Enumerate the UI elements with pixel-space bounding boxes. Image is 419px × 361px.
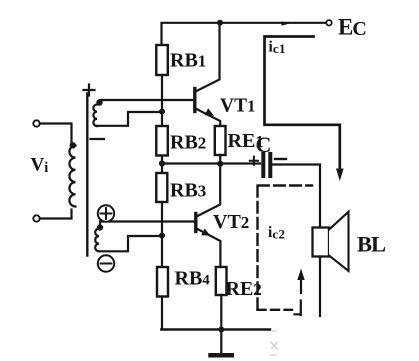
arrowhead VT2 emitter <box>201 228 210 235</box>
resistor RE2 <box>216 267 227 295</box>
speaker BL cone <box>329 212 349 271</box>
input terminal top <box>33 120 39 126</box>
svg-text:RB3: RB3 <box>170 180 206 202</box>
wire RE2 bottom to ground rail <box>220 295 222 330</box>
node junction mid rail left <box>159 160 165 166</box>
node junction ground rail <box>218 327 224 333</box>
polarity + upper winding <box>84 85 95 96</box>
transistor VT2 emitter <box>197 229 221 268</box>
svg-text:C: C <box>256 132 272 157</box>
wire top rail EC <box>162 23 327 45</box>
current loop ic2 dashed corner bottom right <box>295 301 301 316</box>
input terminal bottom <box>33 215 39 221</box>
node junction lower winding return <box>159 233 165 239</box>
node upper winding dot <box>96 99 102 105</box>
svg-text:ic1: ic1 <box>269 39 286 57</box>
wire ground rail <box>161 328 270 330</box>
transistor VT2 base bar <box>194 214 197 232</box>
inductor primary winding <box>69 146 75 207</box>
wire capacitor to speaker <box>273 165 321 228</box>
polarity - upper winding <box>91 138 105 140</box>
transistor VT1 base bar <box>193 89 196 112</box>
capacitor + polarity <box>250 157 258 165</box>
node junction VT1 collector on top rail <box>217 20 223 26</box>
svg-text:EC: EC <box>338 15 366 41</box>
transistor VT1 emitter <box>196 109 221 127</box>
svg-text:RB2: RB2 <box>170 132 206 154</box>
svg-text:RB1: RB1 <box>170 50 206 72</box>
resistor RB1 <box>156 45 168 75</box>
resistor RB3 <box>156 173 167 202</box>
current loop ic2 dashed box left <box>256 186 258 310</box>
capacitor C plates <box>261 154 265 176</box>
current loop ic1 <box>265 37 340 171</box>
current loop ic2 dashed box bottom <box>258 309 293 311</box>
transformer core <box>86 94 88 256</box>
svg-text:VT2: VT2 <box>213 211 249 233</box>
wire VT2 base line from lower winding <box>100 222 195 227</box>
svg-text:BL: BL <box>357 232 386 257</box>
wire input bottom <box>40 210 72 219</box>
capacitor - polarity <box>275 158 286 160</box>
wire RB1 bottom to RB2 top <box>161 75 163 126</box>
arrowhead ic1 <box>336 169 344 182</box>
resistor RB4 <box>157 267 168 297</box>
transistor VT1 collector <box>196 23 220 92</box>
svg-text:Vi: Vi <box>31 155 49 177</box>
inductor upper secondary winding <box>93 105 97 127</box>
polarity circled - lower winding <box>98 255 114 271</box>
faint watermark artifact <box>271 331 278 355</box>
wire RE1 bottom through mid rail to VT2 collector <box>197 155 221 217</box>
svg-text:RB4: RB4 <box>175 268 211 290</box>
resistor RE1 <box>215 126 226 155</box>
svg-text:ic2: ic2 <box>268 224 285 242</box>
wire input top <box>40 124 72 143</box>
terminal EC open circle <box>326 20 331 25</box>
wire mid rail <box>162 162 260 164</box>
node junction mid rail right <box>217 161 223 167</box>
wire upper winding return <box>97 112 159 126</box>
speaker BL box <box>313 228 330 257</box>
arrowhead on top rail (current direction) <box>282 21 290 25</box>
wire RB2 bottom to RB3 top <box>161 156 163 174</box>
wire VT1 base line from upper winding <box>100 100 194 102</box>
inductor lower secondary winding <box>95 229 99 252</box>
node lower winding dot <box>97 224 103 230</box>
ground <box>220 330 222 354</box>
current loop ic2 dashed box top <box>258 184 312 186</box>
polarity circled + lower winding <box>98 205 114 221</box>
node junction upper winding return <box>159 109 165 115</box>
arrowhead VT1 emitter <box>205 108 214 116</box>
node primary dot <box>70 142 76 148</box>
wire speaker bottom <box>319 257 321 317</box>
resistor RB2 <box>156 126 168 156</box>
wire RB3 bottom to RB4 top <box>161 202 163 267</box>
wire RB4 bottom to ground rail <box>161 297 163 330</box>
svg-text:VT1: VT1 <box>220 96 255 117</box>
wire lower winding return <box>99 236 159 251</box>
arrowhead ic2 up arrow <box>300 278 302 293</box>
